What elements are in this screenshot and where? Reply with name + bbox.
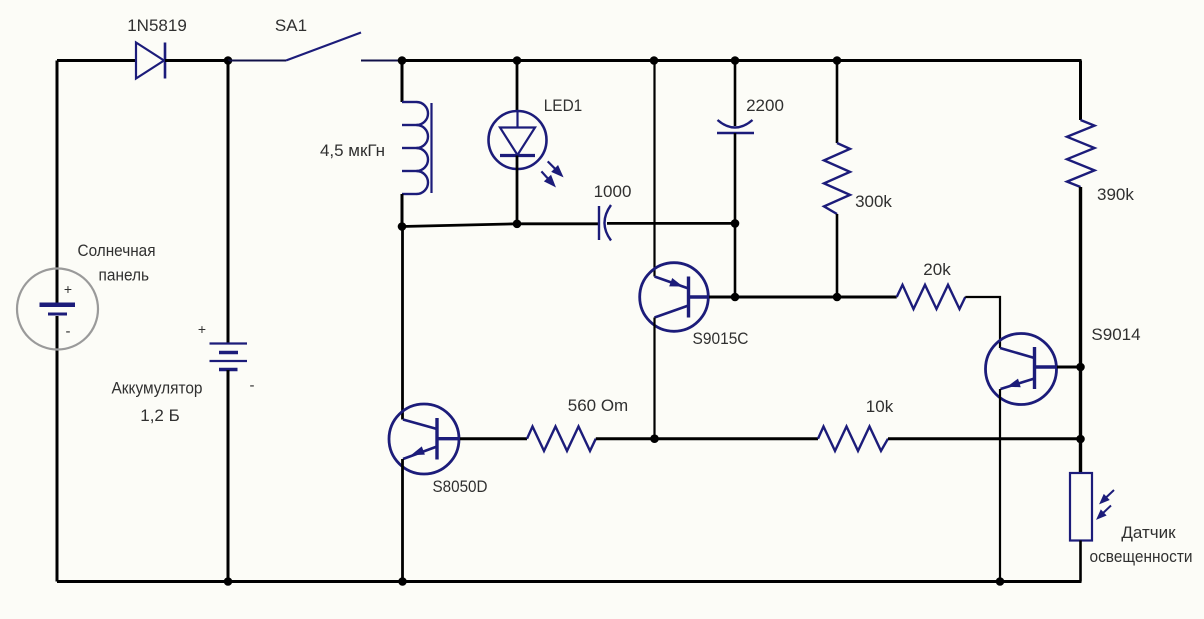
photoresistor (light sensor) — [1070, 473, 1092, 541]
junction dot top rail 654 — [650, 56, 659, 65]
diode 1N5819 — [136, 43, 165, 79]
resistor 560 Om — [527, 427, 596, 451]
svg-text:4,5 мкГн: 4,5 мкГн — [320, 141, 385, 160]
svg-text:1,2 Б: 1,2 Б — [140, 406, 180, 425]
svg-text:Солнечная: Солнечная — [78, 241, 156, 260]
svg-text:Аккумулятор: Аккумулятор — [112, 379, 203, 398]
svg-text:1000: 1000 — [594, 182, 632, 201]
wire cap 1000 to vertical 735 — [607, 222, 735, 225]
wire lower rail to LED node — [402, 224, 598, 227]
svg-text:2200: 2200 — [746, 96, 784, 115]
svg-text:S9014: S9014 — [1091, 325, 1140, 344]
wire S8050 base to 560 Om — [460, 437, 527, 440]
svg-text:LED1: LED1 — [544, 96, 583, 115]
wire 20k to S9014 collector — [965, 297, 1000, 348]
resistor 10k — [818, 427, 888, 451]
wire 560 Om to 10k — [596, 437, 818, 440]
wire inductor bottom — [401, 194, 404, 227]
resistor 300k — [836, 61, 839, 144]
svg-text:+: + — [64, 281, 72, 297]
wire 735 down to base node — [734, 223, 737, 297]
solar panel cell short plate — [48, 313, 67, 316]
node junction dot at diode/battery — [224, 56, 233, 65]
junction dot 300k bottom — [833, 293, 842, 302]
svg-text:390k: 390k — [1097, 185, 1134, 204]
svg-text:10k: 10k — [866, 397, 894, 416]
wire top rail — [402, 59, 1082, 62]
junction dot inductor bottom — [398, 222, 407, 231]
svg-text:300k: 300k — [855, 192, 892, 211]
junction dot top rail 735 — [731, 56, 740, 65]
node junction dot top of inductor branch — [398, 56, 407, 65]
junction dot base/390k — [1076, 363, 1085, 372]
wire S9014 base to 390k node — [1057, 366, 1081, 369]
svg-text:-: - — [250, 377, 255, 394]
transistor Q S8050D — [401, 227, 404, 420]
wire 10k to photoresistor node — [888, 437, 1081, 440]
svg-text:Датчик: Датчик — [1121, 523, 1176, 542]
wire S9015 emitter from top rail — [653, 61, 655, 277]
junction dot 10k/photoresistor node — [1076, 435, 1085, 444]
wire S9014 emitter down — [999, 389, 1001, 582]
wire S9015 collector down — [653, 318, 655, 440]
svg-text:SA1: SA1 — [275, 16, 307, 35]
svg-text:560 Om: 560 Om — [568, 396, 628, 415]
wire diode to switch node — [165, 59, 228, 62]
capacitor C 2200 — [734, 61, 737, 127]
junction dot battery bottom — [224, 577, 233, 586]
svg-text:S9015C: S9015C — [693, 329, 749, 348]
svg-text:панель: панель — [99, 266, 150, 285]
svg-text:1N5819: 1N5819 — [127, 16, 187, 35]
battery Аккумулятор plates — [210, 344, 248, 370]
wire left rail vertical — [56, 61, 59, 304]
junction dot S9014 emitter at rail — [996, 577, 1005, 586]
junction dot base node 735 — [731, 293, 740, 302]
bottom rail wire — [57, 580, 1082, 583]
LED1 — [516, 61, 519, 113]
transistor Q S9014 — [986, 334, 1057, 405]
junction dot at 735 lower rail — [731, 219, 740, 228]
solar panel circle — [17, 269, 98, 350]
switch SA1 — [228, 60, 286, 62]
transistor Q S9015C — [640, 263, 709, 332]
junction dot 300k top — [833, 56, 842, 65]
svg-text:20k: 20k — [923, 260, 951, 279]
battery wire upper — [227, 61, 230, 344]
junction dot S8050 emitter at rail — [398, 577, 407, 586]
battery wire lower — [227, 370, 230, 582]
solar panel cell long plate — [40, 303, 76, 308]
photoresistor light arrows — [1098, 490, 1114, 518]
wire top-left from solar panel to diode — [57, 59, 136, 62]
LED1 light arrows — [541, 161, 561, 185]
junction dot top of LED — [513, 56, 522, 65]
svg-text:-: - — [66, 323, 71, 340]
svg-text:+: + — [198, 321, 206, 337]
resistor 390k — [1079, 61, 1082, 121]
wire base S9015 to right — [709, 296, 897, 299]
resistor 20k — [897, 285, 966, 309]
junction dot at 655/439 — [650, 434, 659, 443]
junction dot bottom of LED — [513, 220, 522, 229]
inductor 4,5 мкГн — [401, 61, 404, 103]
svg-text:освещенности: освещенности — [1090, 547, 1193, 566]
svg-text:S8050D: S8050D — [433, 477, 488, 496]
capacitor C 1000 — [598, 206, 600, 240]
